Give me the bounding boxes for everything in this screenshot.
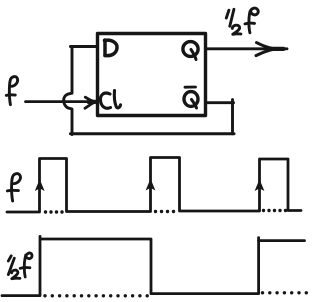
D flip-flop U1 body <box>98 34 206 116</box>
clock edge arrow 1 <box>35 179 45 191</box>
dotted baseline under f pulse 1 <box>44 210 64 213</box>
wire f input <box>26 100 91 103</box>
dotted baseline under f pulse 3 <box>262 209 287 212</box>
clock edge arrow 2 <box>146 179 156 191</box>
dotted baseline under f pulse 2 <box>154 210 175 213</box>
arrowhead f input <box>85 97 95 108</box>
node label f input <box>6 77 17 105</box>
pin label Cl <box>100 91 120 109</box>
waveform half-f trace <box>2 236 305 295</box>
dotted baseline under half-f high 1 <box>43 294 149 297</box>
wire Q-bar output <box>206 101 234 104</box>
pin label D <box>105 40 118 56</box>
arrowhead Q output <box>256 43 284 56</box>
node label half-f output <box>226 8 258 34</box>
wire Q output <box>206 47 288 50</box>
wire feedback into D <box>71 45 98 48</box>
wire feedback bottom <box>71 132 235 135</box>
waveform f label <box>7 174 20 201</box>
wire feedback right vertical <box>231 100 234 134</box>
pin label Q <box>183 42 198 60</box>
waveform half-f label <box>8 253 32 279</box>
waveform f trace <box>7 158 301 213</box>
dotted baseline under half-f high 2 <box>261 291 308 294</box>
clock edge arrow 3 <box>255 179 265 191</box>
pin label Q-bar <box>184 87 198 108</box>
wire feedback left vertical with hop <box>64 47 72 135</box>
